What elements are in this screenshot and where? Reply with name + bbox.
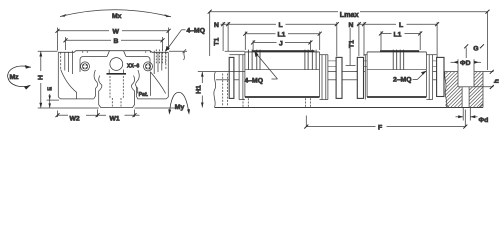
block wing inner profile	[61, 70, 166, 99]
block inner groove line right	[136, 70, 140, 94]
screw right	[144, 62, 153, 71]
hatching	[436, 50, 466, 136]
rail section (hatched)	[445, 72, 483, 108]
block inner groove line left	[94, 70, 98, 99]
hidden hole below block1 for F	[243, 98, 311, 107]
tapped hole hidden lines top-right	[156, 50, 165, 65]
svg-text:W1: W1	[110, 115, 120, 122]
svg-text:N: N	[214, 22, 219, 29]
end-seal vertical lines left	[61, 51, 73, 74]
end seals left	[238, 55, 240, 100]
dimension h	[474, 70, 494, 89]
raised center top	[380, 50, 419, 52]
moment arrow My	[168, 92, 190, 115]
label 4-MQ (side view) with leader	[245, 52, 278, 85]
rail 1 top edge right of block1	[328, 71, 336, 73]
block 1 (4-MQ)	[225, 50, 342, 100]
svg-text:My: My	[175, 104, 185, 111]
svg-text:B: B	[114, 38, 119, 45]
block outline (end view)	[58, 51, 168, 99]
svg-text:h: h	[493, 79, 500, 83]
rail joint	[342, 72, 357, 80]
svg-text:Φd: Φd	[479, 117, 489, 124]
svg-text:T1: T1	[213, 38, 220, 46]
dimension H1 (rail height, rotated label)	[198, 72, 216, 108]
rail cross profile	[94, 70, 139, 108]
dimension N and L (first)	[221, 22, 339, 57]
rail 2 top edge segments	[356, 71, 358, 73]
end seals left	[364, 55, 366, 100]
svg-text:H1: H1	[195, 85, 202, 94]
svg-text:L: L	[279, 22, 283, 29]
grease nipple circle	[110, 58, 123, 71]
rail 1 hidden hole near end	[223, 74, 228, 107]
svg-text:G: G	[473, 45, 478, 52]
svg-text:N: N	[349, 22, 354, 29]
end seals right	[321, 55, 323, 100]
svg-text:Mx: Mx	[112, 13, 122, 20]
bellows end plate right of block 1 with grease nipple	[328, 60, 336, 62]
thread depth line	[245, 69, 320, 71]
dimension N and L (second)	[357, 22, 439, 57]
dimension Phid	[456, 108, 478, 121]
rail bottom edge (full)	[215, 107, 484, 109]
bellows end plate right of block 2	[437, 57, 444, 96]
rail hidden mounting hole (dashed)	[110, 76, 123, 107]
thread depth line	[367, 69, 426, 71]
dimension Lmax	[208, 10, 490, 70]
inner face-plate outline	[80, 57, 150, 73]
svg-text:L1: L1	[278, 32, 286, 39]
end seals right	[428, 55, 430, 100]
rail top dark bar	[107, 73, 127, 75]
thread depth detail line with break	[169, 49, 187, 60]
dimension L1 (second)	[379, 31, 422, 50]
dimension L1 (first)	[243, 32, 321, 51]
dimension B	[64, 37, 165, 50]
moment arrow Mz	[8, 65, 31, 90]
dimension W	[56, 28, 171, 51]
svg-text:XX–6: XX–6	[127, 64, 139, 70]
dimension W2 W1	[56, 110, 140, 118]
dimension G	[464, 44, 484, 58]
grease nipple housing	[107, 51, 126, 74]
dimension H	[38, 51, 58, 108]
rail left side	[99, 76, 135, 108]
svg-text:4–MQ: 4–MQ	[187, 28, 206, 35]
raised center top	[252, 50, 315, 52]
svg-text:Pat.: Pat.	[139, 92, 149, 98]
rail 1 top edge	[216, 71, 245, 73]
dimension PhiD	[451, 59, 482, 71]
svg-text:T1: T1	[349, 40, 356, 48]
screw left	[81, 62, 90, 71]
body outline	[366, 52, 368, 97]
svg-text:4–MQ: 4–MQ	[245, 78, 264, 85]
rail 1 left break (wavy)	[214, 72, 216, 108]
svg-text:ΦD: ΦD	[460, 60, 471, 67]
dimension J	[251, 40, 312, 50]
svg-text:Mz: Mz	[10, 74, 20, 81]
svg-text:L1: L1	[394, 31, 402, 38]
svg-text:Lmax: Lmax	[340, 10, 359, 19]
svg-text:L: L	[399, 22, 403, 29]
bellows end plate left of block 2 with grease nipple	[357, 57, 363, 98]
section bottom corner chamfers	[446, 104, 483, 108]
tapped holes	[248, 50, 316, 70]
dimension F	[304, 110, 467, 129]
svg-text:H: H	[37, 75, 44, 80]
svg-text:E: E	[47, 87, 53, 91]
svg-text:W2: W2	[70, 115, 80, 122]
label 4-MQ (left view) with leader	[166, 28, 206, 52]
svg-text:J: J	[279, 40, 283, 47]
end-seal vertical lines right	[154, 51, 166, 74]
wing right face edge and chamfer curve	[149, 72, 151, 96]
svg-text:W: W	[113, 28, 120, 35]
tapped holes	[393, 50, 404, 70]
label 2-MQ (side view) with leader	[393, 71, 427, 84]
label T1 (second, rotated) with dim line	[346, 28, 356, 65]
baseline under rail (left view)	[38, 107, 99, 109]
svg-text:F: F	[378, 125, 382, 132]
bellows end plate left of block 1	[225, 50, 245, 52]
wing left inner curve	[61, 70, 77, 99]
moment arrow Mx	[60, 10, 171, 17]
screw hole hidden ticks on top face	[83, 51, 150, 53]
dimension E	[47, 94, 59, 108]
svg-text:2–MQ: 2–MQ	[393, 77, 412, 84]
body outline	[244, 52, 246, 97]
block 2 (2-MQ)	[357, 50, 444, 100]
